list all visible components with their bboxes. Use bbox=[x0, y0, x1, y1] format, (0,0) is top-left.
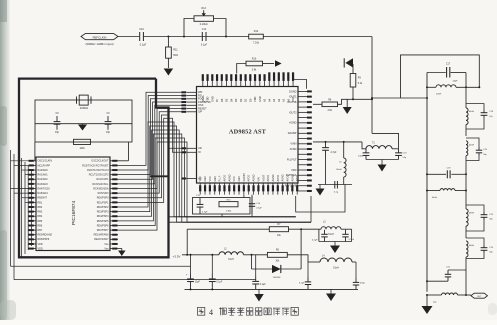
svg-text:RC2/CCP1: RC2/CCP1 bbox=[96, 178, 109, 181]
wire R6 to L4 cell bbox=[287, 255, 308, 262]
node F junction bbox=[186, 254, 252, 256]
U2 left pin 16 RB7 bbox=[29, 229, 43, 232]
U1 left pin RESET bbox=[181, 106, 207, 110]
wire top-right pad to right column bbox=[294, 80, 307, 89]
svg-text:AVDD: AVDD bbox=[248, 175, 251, 182]
potentiometer R13 bbox=[194, 7, 214, 26]
svg-text:RA3/AN3: RA3/AN3 bbox=[38, 183, 49, 186]
U2 left pin 12 RB3 bbox=[29, 211, 43, 214]
svg-text:0-10kΩ: 0-10kΩ bbox=[200, 23, 208, 26]
node D junction bbox=[352, 98, 373, 100]
svg-text:44nH: 44nH bbox=[432, 197, 437, 199]
U1 right pin IOUT1 bbox=[289, 95, 312, 99]
capacitor C8 15p bbox=[54, 113, 61, 134]
capacitor C13 51p bbox=[395, 149, 407, 160]
svg-text:RC1/T1OSI/CCP2: RC1/T1OSI/CCP2 bbox=[89, 174, 109, 177]
U2 left pin 1 OSC1/CLKIN bbox=[29, 160, 53, 163]
DDS chip U1 AD9852 bbox=[197, 87, 299, 184]
svg-text:D0: D0 bbox=[248, 98, 252, 102]
U2 right pin 20 Vss bbox=[104, 247, 118, 250]
label 30MHz input bbox=[85, 42, 113, 46]
U2 left pin 4 RA1/AN1 bbox=[29, 174, 49, 177]
wire filter left column bbox=[426, 73, 428, 292]
svg-text:VDD: VDD bbox=[209, 176, 212, 181]
svg-text:RB6: RB6 bbox=[38, 224, 43, 227]
connector J2 output bbox=[471, 293, 487, 298]
svg-text:0.1µF: 0.1µF bbox=[312, 240, 318, 242]
svg-text:D2: D2 bbox=[239, 98, 243, 102]
svg-text:REFCLKB: REFCLKB bbox=[285, 184, 297, 188]
wire bus line B bbox=[14, 279, 256, 281]
supply arrow for R9 bbox=[344, 58, 353, 67]
ground L3 cell bbox=[330, 242, 340, 254]
wire left port bus bbox=[11, 150, 32, 280]
U2 right pin 2 RC6/TX/CK RC7/RX/DT bbox=[82, 164, 118, 167]
microcontroller U2 PIC16F874 bbox=[36, 157, 110, 251]
U1 right pin bbox=[298, 138, 312, 140]
U1 top pin names bbox=[201, 95, 295, 102]
capacitor C23 39p bbox=[466, 205, 494, 231]
capacitor C24 33p bbox=[466, 238, 494, 259]
svg-text:AVDD: AVDD bbox=[290, 147, 297, 151]
U2 left pin 11 RB2 bbox=[29, 206, 43, 209]
ground at node D bbox=[343, 99, 352, 114]
capacitor C2 0.1uF bbox=[209, 255, 223, 290]
svg-text:RA1/AN1: RA1/AN1 bbox=[38, 174, 49, 177]
wire C21 to left column bbox=[426, 280, 448, 282]
U2 right pin 6 RC3/SCK/SCL bbox=[93, 183, 118, 186]
U2 left pin 14 RB5 bbox=[29, 220, 43, 223]
svg-text:RD4/PSP4: RD4/PSP4 bbox=[97, 215, 109, 218]
ground transformer bbox=[378, 160, 387, 172]
capacitor C18 47p bbox=[466, 104, 494, 129]
U1 right pin AGND bbox=[289, 121, 312, 125]
U1 right pin VDD bbox=[291, 168, 312, 172]
ground under U2 Vss pin bbox=[118, 248, 126, 256]
svg-text:RA2/AN2: RA2/AN2 bbox=[38, 178, 49, 181]
svg-text:RE1/WR/AN6: RE1/WR/AN6 bbox=[94, 234, 110, 237]
capacitor C6 bbox=[334, 181, 339, 194]
wire data bus PIC to U1 left pins bbox=[118, 92, 182, 193]
U2 left pin 15 RB6 bbox=[29, 224, 43, 227]
node E junction bbox=[325, 141, 345, 143]
U1 right pin IOUT2 bbox=[289, 110, 312, 114]
svg-text:1.3kΩ: 1.3kΩ bbox=[226, 211, 232, 213]
svg-text:51nH: 51nH bbox=[328, 234, 334, 236]
svg-text:RC5/SDO: RC5/SDO bbox=[98, 192, 109, 195]
svg-text:RA5/AN4: RA5/AN4 bbox=[38, 192, 49, 195]
U2 left pin 5 RA2/AN2 bbox=[29, 178, 49, 181]
svg-text:100p: 100p bbox=[358, 155, 364, 157]
svg-text:48nH: 48nH bbox=[469, 212, 474, 214]
wire bus line A bbox=[11, 265, 191, 267]
U1 left pin FDQ bbox=[181, 97, 203, 101]
svg-text:4.7µF: 4.7µF bbox=[331, 152, 338, 154]
svg-text:VOUT: VOUT bbox=[262, 174, 265, 181]
svg-text:RC4/SDI/SDA: RC4/SDI/SDA bbox=[93, 187, 109, 190]
svg-text:RD7/PSP7: RD7/PSP7 bbox=[97, 229, 109, 232]
inductor L3 51nH cell bbox=[319, 222, 352, 242]
svg-text:7.16k: 7.16k bbox=[253, 42, 260, 45]
capacitor C4 0.1uF left of L3 bbox=[312, 230, 328, 242]
wire control lines to U1 mid pins bbox=[118, 115, 182, 202]
U1 right pin DACBP bbox=[288, 131, 312, 135]
ground oscillator bbox=[78, 124, 87, 131]
svg-text:3.9k: 3.9k bbox=[252, 68, 257, 71]
node H junctions bbox=[190, 254, 214, 291]
U2 right pin 9 RD0/PSP0 bbox=[97, 197, 118, 200]
U2 left pin 3 RA0/AN0 bbox=[29, 169, 49, 172]
U2 right pin 5 RC2/CCP1 bbox=[96, 178, 118, 181]
svg-text:OSC1/CLKIN: OSC1/CLKIN bbox=[38, 160, 53, 163]
capacitor C5b 0.1uF right of L3 bbox=[342, 230, 355, 242]
U1 right pin DVPSGA bbox=[286, 173, 312, 177]
capacitor C5 4.7uF bbox=[322, 142, 337, 185]
resistor R10 to REFCLK bbox=[237, 57, 274, 73]
svg-text:R12: R12 bbox=[254, 30, 259, 33]
U2 left pin 6 RA3/AN3 bbox=[29, 183, 49, 186]
svg-text:AVDD: AVDD bbox=[223, 175, 226, 182]
svg-text:UD: UD bbox=[198, 146, 202, 150]
svg-text:20MHz: 20MHz bbox=[80, 106, 89, 110]
inductor L7 with C18 bbox=[466, 87, 474, 136]
svg-text:4: 4 bbox=[209, 308, 213, 317]
U1 right pin bbox=[298, 117, 312, 119]
svg-text:GND: GND bbox=[204, 176, 207, 182]
U2 right pin 8 RC5/SDO bbox=[98, 192, 118, 195]
svg-text:R10: R10 bbox=[252, 57, 257, 60]
wire pins into RC box bbox=[222, 195, 244, 217]
svg-text:RB7: RB7 bbox=[38, 229, 43, 232]
wire right rail vertical bbox=[371, 37, 373, 134]
svg-text:50Ω: 50Ω bbox=[173, 54, 178, 57]
svg-text:MCLR/VPP: MCLR/VPP bbox=[38, 164, 51, 167]
svg-text:AG: AG bbox=[198, 176, 202, 180]
U1 right pin bbox=[298, 106, 312, 108]
capacitor C19 mid tank bbox=[426, 168, 467, 179]
inductor L4 51nH cell bbox=[308, 255, 356, 278]
svg-text:56nH: 56nH bbox=[336, 169, 342, 171]
capacitor C21 bbox=[445, 267, 466, 282]
svg-text:PIC16F874: PIC16F874 bbox=[71, 200, 77, 225]
U2 left pin 9 RB0/INT bbox=[29, 197, 48, 200]
inductor L2 51nH bbox=[219, 248, 244, 261]
wire long rail under chip bbox=[169, 216, 296, 218]
svg-text:RD0/PSP0: RD0/PSP0 bbox=[97, 197, 109, 200]
svg-text:RB2: RB2 bbox=[38, 206, 43, 209]
U2 left pin 19 VDD bbox=[29, 243, 43, 246]
wire lower bus PIC to U1 bottom pins bbox=[118, 122, 311, 230]
svg-text:D3: D3 bbox=[234, 98, 238, 102]
arrow into REFCLK pin bbox=[275, 60, 282, 66]
svg-text:10µF: 10µF bbox=[195, 281, 201, 283]
svg-text:4.7µF: 4.7µF bbox=[256, 208, 262, 210]
inductor L12 output bbox=[426, 293, 471, 304]
U2 right pin 1 OSC2/CLKOUT bbox=[91, 160, 118, 163]
ground L4 cell bbox=[326, 289, 336, 301]
svg-text:VDD: VDD bbox=[38, 247, 43, 250]
wire C10 to R12 bbox=[143, 36, 248, 38]
wire crystal box to OSC pins bbox=[35, 142, 129, 161]
svg-text:AD9852 AST: AD9852 AST bbox=[229, 129, 267, 136]
resistor R15 bbox=[219, 199, 238, 212]
svg-text:RC3/SCK/SCL: RC3/SCK/SCL bbox=[93, 183, 110, 186]
svg-text:VDD: VDD bbox=[233, 176, 236, 181]
U2 left pin 13 RB4 bbox=[29, 215, 43, 218]
U2 right pin 17 RE1/WR/AN6 bbox=[94, 234, 118, 237]
U1 left pin OSK bbox=[181, 103, 203, 107]
U1 left pin IO bbox=[181, 150, 200, 154]
node A junction bbox=[167, 36, 169, 38]
wire filter top loop bbox=[401, 55, 480, 98]
capacitor C17 on first section top edge bbox=[427, 64, 466, 83]
U1 right pin DGND bbox=[289, 89, 312, 93]
U1 left pin RD bbox=[181, 93, 201, 97]
capacitor C16 bbox=[249, 195, 263, 217]
svg-text:48nH: 48nH bbox=[469, 245, 474, 247]
resistor R12 bbox=[249, 30, 264, 45]
U1 left pin WR bbox=[181, 90, 202, 94]
wire chain to output rail bbox=[465, 268, 467, 296]
svg-text:RD1/PSP1: RD1/PSP1 bbox=[97, 201, 109, 204]
wire R7 to L3 cell bbox=[289, 228, 319, 230]
svg-text:RC6/TX/CK RC7/RX/DT: RC6/TX/CK RC7/RX/DT bbox=[82, 164, 109, 167]
svg-text:RC0/T1OSO/T1CKI: RC0/T1OSO/T1CKI bbox=[87, 169, 109, 172]
inductor L6 22nH bbox=[426, 73, 480, 96]
svg-text:+3.3V: +3.3V bbox=[173, 255, 181, 259]
svg-text:0.1µF: 0.1µF bbox=[349, 239, 355, 241]
svg-text:D5: D5 bbox=[225, 98, 229, 102]
svg-text:51nH: 51nH bbox=[228, 259, 234, 261]
svg-text:PLLFILT: PLLFILT bbox=[287, 157, 297, 161]
U1 part label bbox=[229, 129, 267, 136]
resistor R6 bbox=[267, 250, 287, 263]
svg-text:470p: 470p bbox=[360, 283, 366, 285]
svg-text:DGND: DGND bbox=[289, 89, 297, 93]
svg-text:D1: D1 bbox=[244, 98, 248, 102]
wire node B up to R13 bbox=[184, 19, 194, 37]
svg-text:(30MHz 10dBm input): (30MHz 10dBm input) bbox=[85, 42, 113, 46]
U2 right pin 11 RD2/PSP2 bbox=[97, 206, 118, 209]
capacitor C10 bbox=[139, 28, 146, 46]
svg-text:GND: GND bbox=[214, 176, 217, 182]
U2 part label bbox=[71, 200, 77, 225]
U2 right pin 3 RC0/T1OSO/T1CKI bbox=[87, 169, 118, 172]
wire R12 to right rail bbox=[263, 36, 372, 38]
U1 left pin S/P bbox=[181, 110, 202, 114]
U1 top pin comb bbox=[202, 72, 294, 86]
ground for R11 bbox=[164, 69, 174, 76]
svg-text:DACBP: DACBP bbox=[243, 173, 246, 182]
wire rail jog to output node bbox=[372, 133, 399, 148]
inductor L5 bbox=[336, 142, 346, 185]
U1 left pin FSK/BPSK bbox=[181, 100, 211, 104]
inductor L11 with C24 bbox=[466, 241, 474, 268]
svg-text:RB3: RB3 bbox=[38, 211, 43, 214]
diode D1 1N4148 bbox=[252, 229, 302, 279]
svg-text:S/P: S/P bbox=[198, 110, 202, 114]
U1 right pin VINN bbox=[290, 142, 311, 146]
U2 right pin 16 RD7/PSP7 bbox=[97, 229, 118, 232]
svg-text:VINN: VINN bbox=[290, 142, 296, 146]
svg-text:RB1: RB1 bbox=[38, 201, 43, 204]
U2 left pin 10 RB1 bbox=[29, 201, 43, 204]
wire oscillator mid rail bbox=[35, 123, 132, 125]
svg-text:D4: D4 bbox=[229, 98, 233, 102]
svg-text:RA0/AN0: RA0/AN0 bbox=[38, 169, 49, 172]
node C junction bbox=[225, 36, 227, 38]
svg-text:AVDD: AVDD bbox=[277, 175, 280, 182]
svg-text:RB4: RB4 bbox=[38, 215, 43, 218]
svg-text:IO: IO bbox=[198, 150, 201, 154]
wire R13 down to node C bbox=[214, 19, 227, 37]
U2 right pin 18 RE2/CS/AN7 bbox=[94, 238, 118, 241]
svg-text:AGND: AGND bbox=[282, 174, 285, 181]
svg-text:RB0/INT: RB0/INT bbox=[38, 197, 48, 200]
svg-text:AGND: AGND bbox=[228, 174, 231, 181]
U2 right pin 10 RD1/PSP1 bbox=[97, 201, 118, 204]
inductor L10 with C23 bbox=[466, 191, 474, 239]
svg-text:0.1µF: 0.1µF bbox=[140, 44, 147, 47]
U2 right pin 4 RC1/T1OSI/CCP2 bbox=[89, 174, 118, 177]
wire R7 branch bbox=[187, 229, 269, 255]
U1 bottom pin names bbox=[199, 173, 299, 182]
svg-text:REFCLKIN: REFCLKIN bbox=[93, 35, 107, 39]
U2 left pin 8 RA5/AN4 bbox=[29, 192, 49, 195]
node B junction to potentiometer bbox=[183, 36, 185, 38]
crystal Y1 20MHz bbox=[77, 95, 92, 110]
svg-text:IOUT1: IOUT1 bbox=[289, 95, 297, 99]
svg-text:0.1µ: 0.1µ bbox=[334, 192, 339, 194]
svg-text:AGND: AGND bbox=[272, 174, 275, 181]
svg-text:VDD: VDD bbox=[291, 168, 297, 172]
U2 left pin 7 RA4/T0CKI bbox=[29, 187, 51, 190]
svg-text:RB5: RB5 bbox=[38, 220, 43, 223]
svg-text:GND: GND bbox=[238, 176, 241, 182]
node G junction bbox=[300, 228, 302, 230]
U1 right pin PLLFILT bbox=[287, 157, 312, 161]
wire J1 to C10 bbox=[118, 36, 139, 38]
svg-text:44pF: 44pF bbox=[453, 80, 459, 82]
U1 left pin AG bbox=[181, 176, 201, 180]
svg-text:44nH: 44nH bbox=[469, 145, 474, 147]
U2 left pin 17 RE0/RD/AN5 bbox=[29, 234, 53, 237]
U2 right pin 13 RD4/PSP4 bbox=[97, 215, 118, 218]
svg-text:C10: C10 bbox=[139, 28, 144, 31]
thick stub wire at left of bus bbox=[150, 175, 169, 177]
capacitor C26 left of L4 bbox=[299, 277, 311, 289]
U1 bottom pin comb bbox=[199, 183, 298, 195]
resistor R14 bbox=[74, 139, 91, 150]
svg-text:0.1µF: 0.1µF bbox=[216, 281, 223, 283]
svg-text:0.1µF: 0.1µF bbox=[260, 284, 267, 286]
wire filter feed bbox=[371, 97, 428, 99]
svg-text:DVPSGA: DVPSGA bbox=[286, 173, 297, 177]
ground filter output bbox=[422, 295, 433, 314]
capacitor C1 10uF bbox=[186, 255, 200, 290]
svg-text:RD5/PSP5: RD5/PSP5 bbox=[97, 220, 109, 223]
capacitor C20 56p bbox=[466, 138, 488, 161]
wire ground rail bbox=[185, 288, 359, 290]
U1 right pin REFCLKB bbox=[285, 184, 312, 188]
svg-text:OUT: OUT bbox=[477, 296, 482, 298]
inductor L9 mid tank bbox=[426, 174, 467, 199]
svg-text:RE0/RD/AN5: RE0/RD/AN5 bbox=[38, 234, 53, 237]
U2 right pin 12 RD3/PSP3 bbox=[97, 211, 118, 214]
svg-text:RD6/PSP6: RD6/PSP6 bbox=[97, 224, 109, 227]
label +3.3V bbox=[173, 255, 181, 259]
transformer T1 winding bbox=[362, 142, 399, 149]
svg-text:DACBP: DACBP bbox=[288, 131, 297, 135]
svg-text:44nH: 44nH bbox=[469, 111, 474, 113]
ground bias cluster bbox=[316, 185, 325, 196]
svg-text:15p: 15p bbox=[106, 131, 111, 134]
U1 right pin AVDD bbox=[290, 147, 312, 151]
caption figure 4 bbox=[198, 307, 299, 316]
U2 left pin 18 RD6/PSP6 bbox=[29, 238, 50, 241]
svg-text:AGND: AGND bbox=[253, 174, 256, 181]
svg-text:D7: D7 bbox=[215, 98, 219, 102]
svg-text:4.7µF: 4.7µF bbox=[202, 212, 208, 214]
svg-text:AVDD: AVDD bbox=[267, 175, 270, 182]
svg-text:C12: C12 bbox=[202, 28, 207, 31]
capacitor C7 100p bbox=[358, 149, 369, 160]
svg-text:22nH: 22nH bbox=[436, 94, 442, 96]
wire +3.3V rail bbox=[182, 254, 219, 256]
U2 left pin 20 VDD bbox=[29, 247, 43, 250]
svg-text:RA4/T0CKI: RA4/T0CKI bbox=[38, 187, 51, 190]
svg-text:RD6/PSP6: RD6/PSP6 bbox=[38, 238, 50, 241]
svg-text:R11: R11 bbox=[173, 48, 178, 51]
shield box around PIC microcontroller bbox=[19, 79, 169, 258]
U1 right pin bbox=[298, 153, 312, 155]
svg-text:AGND: AGND bbox=[289, 121, 297, 125]
svg-text:OSC2/CLKOUT: OSC2/CLKOUT bbox=[91, 160, 109, 163]
oscillator sub-circuit box bbox=[35, 100, 132, 142]
svg-text:RD2/PSP2: RD2/PSP2 bbox=[97, 206, 109, 209]
svg-text:IOUT1B: IOUT1B bbox=[287, 100, 297, 104]
svg-text:D6: D6 bbox=[220, 98, 224, 102]
U1 right pin IOUT1B bbox=[287, 100, 312, 104]
svg-text:RE2/CS/AN7: RE2/CS/AN7 bbox=[94, 238, 109, 241]
svg-text:VIN: VIN bbox=[257, 177, 260, 181]
resistor R9 bbox=[350, 64, 363, 99]
svg-text:GND: GND bbox=[258, 96, 262, 102]
U1 right pin bbox=[298, 179, 312, 181]
svg-text:IOUT2: IOUT2 bbox=[289, 110, 297, 114]
svg-text:1MΩ: 1MΩ bbox=[79, 147, 84, 150]
connector J1 REFCLKIN bbox=[81, 33, 118, 39]
svg-text:0.1µF: 0.1µF bbox=[299, 283, 305, 285]
capacitor C14 bbox=[196, 195, 208, 214]
svg-text:PLLF: PLLF bbox=[219, 175, 222, 181]
wire bias bottom rail bbox=[318, 184, 352, 186]
capacitor C12 bbox=[201, 28, 208, 46]
svg-text:GND: GND bbox=[210, 96, 214, 102]
capacitor C9 15p bbox=[105, 113, 112, 134]
svg-text:C17: C17 bbox=[446, 64, 451, 66]
svg-text:VDD: VDD bbox=[38, 243, 43, 246]
U2 right pin 15 RD6/PSP6 bbox=[97, 224, 118, 227]
svg-text:1N4148: 1N4148 bbox=[273, 277, 281, 279]
ground power rail bbox=[254, 289, 264, 301]
capacitor C3 0.1uF bbox=[252, 255, 266, 290]
sub-circuit box RC bbox=[193, 198, 251, 215]
U2 right pin 19 Vss bbox=[104, 243, 118, 246]
resistor R7 10k bbox=[269, 224, 288, 237]
wire under-chip link bbox=[296, 185, 345, 213]
U1 left pin UD bbox=[181, 146, 201, 150]
